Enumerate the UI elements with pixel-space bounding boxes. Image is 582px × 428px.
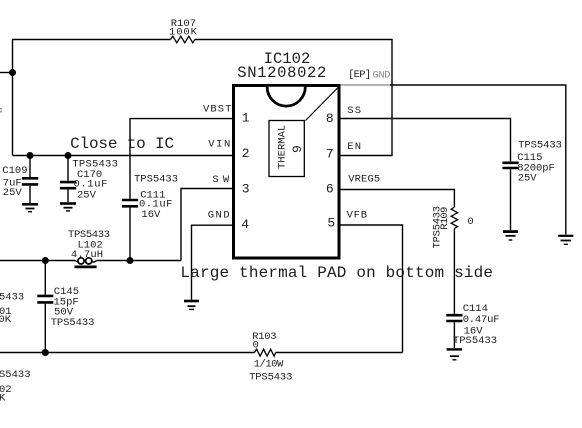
wire SW pin3 <box>181 189 234 261</box>
wire VFB pin5 <box>339 225 403 353</box>
svg-text:TPS5433: TPS5433 <box>249 371 292 383</box>
svg-text:SN1208022: SN1208022 <box>237 64 326 82</box>
svg-text:0: 0 <box>467 216 473 228</box>
svg-text:0K: 0K <box>0 314 12 326</box>
resistor label fragment R102 <box>0 369 31 404</box>
junction dot <box>65 152 72 159</box>
svg-text:C109: C109 <box>2 165 27 177</box>
svg-text:GND: GND <box>373 70 391 82</box>
junction dot <box>27 152 34 159</box>
ground <box>503 232 518 240</box>
wire feedback rail <box>0 352 254 354</box>
svg-text:SW: SW <box>212 174 229 186</box>
svg-text:TPS5433: TPS5433 <box>134 174 178 186</box>
capacitor C170 <box>60 156 118 203</box>
svg-text:S5433: S5433 <box>0 369 31 381</box>
ground <box>22 204 38 211</box>
wire EN pin7 <box>339 39 392 156</box>
svg-text:VREG5: VREG5 <box>348 174 380 186</box>
svg-text:VBST: VBST <box>203 104 231 116</box>
svg-text:TPS5433: TPS5433 <box>518 140 562 152</box>
svg-text:8: 8 <box>326 111 334 126</box>
resistor R103 <box>249 331 292 383</box>
svg-text:TPS5433: TPS5433 <box>453 335 497 347</box>
junction dot <box>9 69 16 76</box>
svg-text:5433: 5433 <box>0 291 24 303</box>
svg-text:6: 6 <box>326 181 334 196</box>
svg-text:100K: 100K <box>169 27 198 39</box>
ground <box>184 301 199 309</box>
svg-text:5: 5 <box>327 215 335 230</box>
svg-text:TPS5433: TPS5433 <box>51 317 95 329</box>
svg-text:25V: 25V <box>77 189 97 201</box>
node EP GND label <box>348 69 390 81</box>
svg-text:25V: 25V <box>518 173 538 185</box>
svg-text:THERMAL: THERMAL <box>276 125 288 169</box>
svg-text:4.7uH: 4.7uH <box>71 249 103 261</box>
wire input stub <box>0 72 13 74</box>
svg-text:Close to IC: Close to IC <box>70 135 174 153</box>
svg-text:GND: GND <box>208 210 230 222</box>
capacitor C114 <box>446 303 499 348</box>
wire VREG5 pin6 <box>339 190 454 208</box>
capacitor C115 <box>502 140 561 231</box>
svg-text:EN: EN <box>347 141 361 153</box>
wire EP <box>390 85 566 234</box>
capacitor C145 <box>37 261 94 353</box>
op-amp U1 IC102 body <box>234 86 340 259</box>
resistor R109 <box>431 206 473 249</box>
ground <box>60 204 76 211</box>
svg-text:4: 4 <box>241 217 249 232</box>
ground <box>447 349 463 359</box>
svg-text:R109: R109 <box>439 207 451 230</box>
svg-text:9: 9 <box>290 145 305 153</box>
svg-text:SS: SS <box>347 105 361 117</box>
svg-text:1/10W: 1/10W <box>254 358 284 370</box>
svg-text:VFB: VFB <box>347 210 367 222</box>
wire feedback rail right segment <box>276 352 403 354</box>
wire inductor rail <box>0 260 75 262</box>
svg-text:Large thermal PAD on bottom si: Large thermal PAD on bottom side <box>180 264 493 282</box>
wire top rail left segment <box>13 39 171 41</box>
svg-text:25V: 25V <box>3 187 23 199</box>
wire left riser <box>12 39 14 156</box>
wire VIN rail <box>13 155 234 157</box>
capacitor C111 <box>122 174 178 261</box>
IC reference labels <box>237 50 326 82</box>
junction dot <box>42 257 49 264</box>
svg-text:VIN: VIN <box>208 139 230 151</box>
svg-text:F: F <box>0 107 3 119</box>
wire top rail right segment <box>195 39 392 41</box>
svg-text:0: 0 <box>253 339 259 351</box>
wire EP gray segment <box>339 84 390 86</box>
junction dot <box>42 349 49 356</box>
junction dot <box>127 257 134 264</box>
svg-text:K: K <box>0 392 6 404</box>
wire GND pin4 <box>192 225 234 300</box>
svg-text:2: 2 <box>242 146 250 161</box>
svg-text:16V: 16V <box>141 209 161 221</box>
svg-text:0.47uF: 0.47uF <box>463 314 500 326</box>
resistor label fragment R101 <box>0 291 24 326</box>
wire VREG5 riser lower <box>453 229 455 314</box>
svg-text:3: 3 <box>242 182 250 197</box>
resistor R107 <box>169 18 198 43</box>
ground <box>558 236 573 245</box>
svg-text:7: 7 <box>326 146 334 161</box>
thermal pad pin 9 <box>269 121 305 177</box>
svg-text:1: 1 <box>242 110 250 125</box>
wire VBST pin1 <box>130 119 234 199</box>
capacitor C109 <box>2 156 38 204</box>
wire SS pin8 <box>339 119 511 162</box>
svg-text:[EP]: [EP] <box>348 69 371 81</box>
inductor L102 <box>68 229 110 267</box>
